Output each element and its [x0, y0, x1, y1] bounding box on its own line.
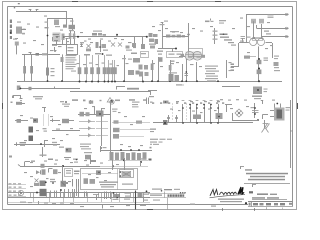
curve marks c [43, 128, 48, 132]
cap ticks bus row [31, 193, 144, 198]
capacitor C20 row [240, 37, 251, 44]
triangle warning [107, 98, 113, 103]
opto row 1 [79, 119, 95, 123]
bars b3 [105, 192, 111, 200]
node pi bus dots [120, 149, 140, 151]
capacitor bank C31 [51, 191, 57, 198]
component psu r2 [42, 169, 46, 175]
resistor R31 cluster [169, 72, 180, 81]
iec inlet [120, 170, 134, 178]
wire sw row2 [52, 129, 80, 131]
marks sw3b [52, 142, 57, 146]
connector J1 input jack [10, 20, 12, 40]
wire stage1 bottom [52, 44, 74, 46]
node pi j2 [258, 68, 260, 70]
title block bottom [248, 206, 293, 208]
dotted riser 2 [48, 115, 49, 126]
wire preamp ground bus [17, 81, 282, 83]
component sw3c [59, 147, 72, 153]
title underline [244, 183, 290, 185]
fold tick b2 [254, 208, 256, 211]
component pcb bl3 [100, 146, 106, 152]
marks pcb right [112, 109, 118, 112]
wire send A [246, 13, 289, 15]
component dc jack [16, 102, 25, 105]
title strip line [248, 201, 293, 203]
wire supply bus B [8, 197, 150, 199]
border outer frame [3, 2, 297, 210]
opto row 2 [79, 126, 95, 130]
wire riser x101 [101, 108, 103, 146]
wire tx link [232, 113, 252, 121]
capacitor Ct8 tone [113, 60, 117, 82]
wire row line2 [148, 197, 186, 199]
pcb inner row1 [82, 170, 118, 175]
tick v-row tops [182, 100, 220, 102]
capacitor Cb2 [175, 115, 178, 123]
tube V3 internal [188, 57, 201, 58]
node psu t2 [112, 160, 114, 170]
grid tick top 1 [72, 1, 78, 3]
bracket sw3 [44, 141, 48, 148]
capacitor Ct2 tone [84, 55, 88, 82]
wire pi bottom link [108, 160, 148, 162]
pcb inner row2 [84, 178, 96, 184]
connector bias jack [153, 120, 168, 125]
wire lower return bus [17, 88, 80, 90]
component pcb b [96, 111, 104, 117]
wire pi right [266, 43, 273, 59]
component psu blob [41, 164, 45, 168]
component fsw2 [113, 134, 144, 139]
component row ch2 [166, 31, 185, 38]
wire return bus B [70, 91, 150, 93]
wire PI bus [100, 150, 152, 152]
triode V1a [52, 33, 61, 46]
component fx couple [220, 33, 237, 45]
label fx send [219, 20, 226, 24]
wire pi left rail [227, 60, 232, 78]
node V1 plate [45, 22, 49, 37]
resistor network RN1 [92, 31, 106, 37]
wire v3 drop 4 [181, 64, 183, 82]
bracket mid below [117, 86, 126, 90]
dash row 1 [96, 121, 108, 123]
impedance selector SW1 [253, 87, 268, 95]
cluster right of rail [138, 190, 150, 202]
value labels tone drops [77, 63, 129, 67]
wire v3 drop 2 [157, 57, 159, 82]
node v-row tops2 [182, 107, 219, 109]
pot bias adj [34, 179, 39, 187]
logo sub text1 [218, 199, 244, 200]
wire riser x91 [89, 100, 93, 104]
wire riser x215 [213, 28, 218, 44]
fold tick b1 [222, 208, 224, 211]
title address line2 [246, 173, 288, 175]
bottom marks row1 [220, 99, 275, 101]
marks above bus [176, 101, 220, 102]
wire v-row [183, 104, 219, 123]
wire riser x162 [161, 22, 164, 49]
mains pcb box [81, 169, 138, 190]
connector pi top [253, 38, 263, 41]
wire pcb row [78, 114, 110, 116]
capacitor Ct3 tone [90, 55, 94, 82]
node v4 pin1 [251, 19, 256, 38]
node pi bus [217, 80, 260, 82]
node ch2 j2 [175, 48, 177, 50]
grid label 2 [12, 96, 14, 99]
resistor R10 [61, 57, 64, 62]
cluster psu topright [73, 159, 78, 163]
dotted riser b2 [186, 104, 187, 120]
value labels right top [232, 18, 273, 54]
bracket fx below [148, 91, 157, 98]
pcb text block [99, 182, 133, 188]
resistor Rpi1 [257, 60, 262, 64]
node sw3 [40, 143, 42, 145]
marks row y100 [72, 99, 147, 101]
wire sw row1b [50, 119, 60, 123]
grid tick right [297, 103, 299, 109]
wire sw row3 [14, 144, 60, 146]
connector lower left [17, 86, 22, 91]
PI component row [110, 152, 147, 160]
cap bank left pcb [77, 187, 79, 197]
title address line3 [250, 176, 285, 178]
grid label A [14, 3, 20, 8]
tick bus lower [54, 87, 56, 89]
dotted riser 1 [43, 115, 44, 126]
wire HT rail top-left [16, 12, 67, 25]
divider v1 [164, 192, 166, 198]
wire riser x95 [94, 106, 96, 114]
wire output bus right [153, 122, 253, 124]
capacitor Ct7 tone [110, 60, 114, 82]
tick top tx [261, 100, 263, 104]
label x mark [149, 159, 152, 161]
lamp LP1 [110, 100, 114, 104]
node v4 pin2 [259, 19, 264, 38]
relay box RL1 [167, 52, 183, 58]
component left of pi [244, 56, 256, 59]
capacitor Ct4 tone [97, 55, 101, 82]
wire v3 drop 3 [169, 60, 172, 82]
wire pi center drop [258, 46, 260, 81]
pot VR3 mid [118, 43, 122, 47]
wire spk link [222, 86, 240, 88]
dash link row1 [112, 120, 150, 123]
dash note rows [150, 139, 173, 149]
misc marks ch bottom [84, 53, 112, 56]
table rows left [8, 185, 26, 197]
wire channel signal [64, 36, 147, 38]
label bias [150, 101, 169, 104]
hv rail dark [135, 191, 137, 210]
capacitor Ct5 tone [103, 55, 107, 82]
cluster bias right [216, 113, 223, 119]
resistor R9 [46, 68, 55, 77]
cluster right pi [274, 56, 281, 72]
resistor R1 grid stopper cluster [16, 27, 26, 35]
component sw1c [62, 119, 74, 123]
resistor Rscreen [193, 115, 201, 120]
wire sw row1 [15, 120, 28, 122]
dotted riser b1 [172, 104, 173, 120]
wire supply bus C [8, 202, 150, 204]
capacitor C11 [126, 46, 133, 51]
relay RLA dark [29, 127, 34, 133]
value labels input stage [17, 16, 74, 52]
resistor R3 marks [42, 53, 48, 55]
tick x210 [210, 19, 212, 21]
title info row1 [249, 191, 277, 195]
node pi j1 [258, 58, 260, 60]
wire right rail [290, 100, 292, 168]
diode D1 [36, 170, 41, 174]
vertical pair right [147, 98, 149, 105]
marks left of relay [157, 51, 163, 55]
value labels switching [20, 115, 73, 141]
wire mains rail 1 [20, 166, 100, 168]
component psu r5 [74, 171, 80, 175]
tick top rail 2 [36, 10, 39, 12]
capacitor bank C30 [73, 179, 79, 187]
wire drop x62 [62, 54, 64, 81]
wire cathode row [22, 54, 60, 56]
transformer T1 [270, 103, 290, 121]
pot VR1 gain [86, 44, 91, 51]
power entry P1 [18, 190, 23, 195]
marks sw bottom [64, 158, 71, 160]
title small bracket [252, 185, 256, 188]
ground sym left [20, 96, 23, 101]
capacitor Cpi [264, 58, 269, 61]
dash row 3 [96, 135, 108, 137]
cluster b4 [113, 192, 121, 200]
wire psu top [18, 165, 100, 167]
logo sub text2 [220, 201, 242, 202]
title address line1 [245, 169, 252, 170]
wire send C [253, 31, 288, 39]
node v-row tops [189, 104, 212, 106]
wire psu top right [100, 166, 148, 168]
tick top rail 1 [29, 10, 32, 12]
resistor R5 cathode [62, 34, 65, 45]
marks below v3bus [150, 129, 156, 133]
wire input drop [16, 46, 18, 55]
node ch j1 [77, 36, 79, 38]
component fsw [113, 128, 150, 132]
cluster psu b1 [36, 189, 46, 196]
component psu box [65, 169, 73, 177]
node ch j2 [116, 34, 118, 37]
wire drop R7 [24, 55, 26, 81]
wire supply bus A [8, 192, 150, 194]
value labels channel strip [80, 32, 136, 48]
component box interstage [67, 45, 78, 55]
wire v3 drop 6 [196, 62, 198, 82]
node ch j3 [146, 36, 148, 38]
fuse F1 [251, 103, 259, 118]
text pcb bl1 [80, 144, 91, 150]
resistor R2 [36, 53, 40, 56]
node psu t3 [123, 158, 125, 170]
tube V3 envelope [185, 49, 205, 61]
resistor R8 [30, 66, 33, 74]
wire v1 plate drop [47, 18, 49, 81]
wire riser x124 [122, 55, 126, 82]
chassis ground sym [262, 120, 270, 133]
dots row end [180, 192, 186, 193]
capacitor Ct6 tone [107, 60, 111, 82]
resistor Rpi2 [257, 70, 262, 75]
divider v2 [167, 198, 169, 210]
wire send A drop [246, 14, 248, 43]
label ch2 top [160, 21, 169, 26]
component mid58 [128, 58, 140, 63]
bracket psu 1 [90, 159, 96, 164]
wire drop x47 [47, 58, 49, 81]
resistor R7 [23, 66, 26, 74]
component sw3a [17, 142, 27, 146]
wire ch2 lower [158, 48, 176, 50]
value labels pcb [84, 106, 145, 147]
resistor R30 [159, 57, 163, 62]
text block right of v3 [205, 66, 219, 82]
label right top [132, 102, 140, 108]
title address line4 [248, 179, 285, 181]
pot VR2 treble [111, 43, 115, 47]
marks fx right [268, 14, 274, 18]
component psu m3 [61, 181, 68, 187]
marks below bus mid [176, 84, 184, 85]
value labels output bus [170, 106, 249, 113]
bracket sw [42, 108, 46, 113]
wire pi left [231, 43, 249, 67]
node v-row bus [182, 122, 219, 124]
text nnn [127, 88, 139, 90]
riser ch mid [132, 37, 136, 47]
bracket psu r3 [49, 169, 53, 173]
grid label b-left [9, 156, 12, 158]
pcb divider [117, 169, 119, 190]
title info row2 [252, 197, 287, 199]
marks psu m2 [50, 179, 56, 184]
wire v3 plate link [173, 49, 186, 57]
marks psu bottom [20, 201, 74, 205]
wire v3 drop 1 [151, 60, 154, 82]
capacitor C3 [73, 31, 76, 44]
junction a [56, 36, 65, 38]
wire input to stage [13, 39, 19, 46]
riser m1 [90, 159, 96, 165]
bracket tx left [225, 104, 232, 112]
dash row 2 [96, 128, 108, 130]
label a1 [11, 102, 13, 104]
component sw1a [17, 119, 22, 123]
resistor R11 [29, 87, 32, 90]
model text JCM [168, 194, 185, 196]
node bus j1 [47, 80, 63, 82]
cluster psu t4 [140, 158, 146, 166]
cap marks b2 [93, 193, 99, 201]
wire drop R8 [31, 55, 33, 81]
marks under rows [153, 200, 216, 207]
marks bottom row [80, 205, 146, 209]
wire big riser x110 [110, 100, 112, 160]
node psu t1 [62, 165, 64, 181]
component cluster mid [96, 40, 109, 52]
bracket tx mid [263, 115, 269, 120]
lamp neon [235, 109, 243, 117]
wire top link [48, 18, 73, 30]
component psu r4 [53, 169, 58, 174]
marks above psu wire [25, 159, 59, 167]
text above rows [152, 189, 180, 192]
capacitor C1 [29, 53, 32, 55]
eq network cluster [149, 33, 159, 49]
label spk text [252, 96, 262, 100]
marshall logo script [210, 187, 246, 198]
component right ch [141, 37, 149, 58]
opto row 3 [79, 133, 95, 137]
connector pi left pins [231, 64, 235, 71]
capacitor C12 [131, 53, 137, 55]
capacitor Ct1 tone [78, 55, 82, 82]
label pwr text [33, 96, 43, 99]
tube V4 envelope [250, 38, 265, 45]
capacitor Cb1 [167, 115, 170, 123]
component right cluster [139, 65, 149, 83]
text row mid1 [150, 195, 162, 196]
title corner bracket [240, 167, 244, 170]
wire row line1 [148, 193, 185, 195]
grid tick left [2, 103, 4, 109]
note text column [66, 55, 77, 72]
node rail dot [290, 130, 291, 131]
marks row mid [152, 102, 224, 104]
title strip marks [267, 207, 283, 209]
wire v3 drop 5 [185, 59, 187, 82]
node tx j [252, 119, 259, 121]
capacitor C2 bypass [66, 37, 69, 45]
cluster top right sw [60, 101, 70, 107]
capacitor bank C33 [69, 189, 79, 198]
component sw1b [33, 118, 38, 123]
component pcb a [80, 112, 90, 117]
capacitor bank C32 [60, 189, 64, 198]
capacitor C10 [80, 42, 84, 47]
value labels psu [24, 160, 119, 187]
table cells left [9, 183, 22, 196]
wire ch2 signal [162, 36, 189, 38]
tick pair b1 [85, 192, 87, 197]
grid tick top 2 [147, 1, 153, 3]
label fx top [205, 21, 214, 23]
value labels channel two [152, 26, 213, 67]
resistor R6 [69, 31, 72, 45]
title strip divider [251, 201, 253, 206]
cluster psu m1 [40, 181, 47, 187]
border inner frame [8, 7, 293, 207]
title strip cells [245, 202, 292, 206]
grid tick bottom [147, 209, 153, 211]
ground sym stage1 [54, 47, 57, 52]
wire send B [257, 25, 289, 30]
resistor R4 plate [54, 20, 60, 28]
